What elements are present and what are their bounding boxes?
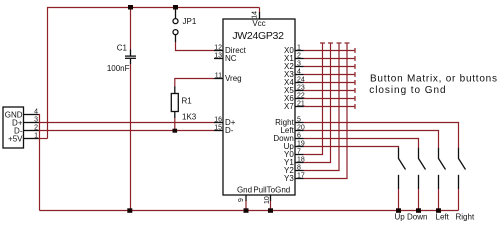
wire Left to switch S3 xyxy=(304,131,439,149)
switch S2 Down xyxy=(419,148,426,189)
svg-text:C1: C1 xyxy=(117,44,128,53)
junction top rail / C1 xyxy=(128,5,133,10)
wire Y0 column xyxy=(304,43,323,155)
pin 16 stub xyxy=(214,122,223,124)
svg-text:22: 22 xyxy=(297,93,305,100)
svg-text:24: 24 xyxy=(297,77,305,84)
wire C1 top xyxy=(130,8,132,50)
capacitor C1 xyxy=(125,50,136,65)
svg-text:4: 4 xyxy=(297,69,301,76)
svg-text:5: 5 xyxy=(297,117,301,124)
svg-text:8: 8 xyxy=(297,165,301,172)
connector pin 3 stub xyxy=(24,122,39,124)
switch S4 Right xyxy=(459,148,466,189)
node X3 end tick xyxy=(354,72,356,77)
svg-text:Button Matrix, or buttons: Button Matrix, or buttons xyxy=(370,74,498,85)
node Y3 top tick xyxy=(345,42,350,44)
svg-text:17: 17 xyxy=(297,173,305,180)
wire R1 bottom to D- xyxy=(174,118,176,131)
junction R1 / D- xyxy=(173,129,178,133)
svg-text:PullToGnd: PullToGnd xyxy=(253,186,290,195)
junction bottom rail / switch S2 xyxy=(416,208,421,213)
svg-text:Vcc: Vcc xyxy=(252,19,265,28)
svg-text:9: 9 xyxy=(238,198,245,202)
svg-text:R1: R1 xyxy=(182,97,193,106)
svg-text:JP1: JP1 xyxy=(183,17,197,26)
svg-text:23: 23 xyxy=(297,85,305,92)
node Y0 top tick xyxy=(320,42,325,44)
connector pin 1 stub xyxy=(24,138,39,140)
wire X5 row xyxy=(304,90,356,92)
svg-text:3: 3 xyxy=(297,61,301,68)
switch S1 Up xyxy=(399,148,406,189)
pin 13 stub xyxy=(214,58,223,60)
wire X7 row xyxy=(304,106,356,108)
svg-text:X7: X7 xyxy=(284,102,294,111)
wire JP1 to pin12 xyxy=(176,42,215,51)
wire Y3 column xyxy=(304,43,348,179)
svg-text:19: 19 xyxy=(297,141,305,148)
svg-text:JW24GP32: JW24GP32 xyxy=(232,30,284,42)
pin 11 stub xyxy=(214,78,223,80)
wire +5V top rail xyxy=(48,8,260,139)
node X7 end tick xyxy=(354,104,356,109)
wire Y2 column xyxy=(304,43,340,171)
junction bottom rail / switch S3 xyxy=(436,208,441,213)
node X0 end tick xyxy=(354,48,356,53)
wire Gnd pin9 xyxy=(245,201,247,211)
svg-text:D-: D- xyxy=(225,126,234,135)
svg-text:13: 13 xyxy=(214,53,222,60)
wire Vreg pin11 to R1 xyxy=(175,79,214,88)
node X5 end tick xyxy=(354,88,356,93)
junction bottom rail / switch S1 xyxy=(396,208,401,213)
wire Y1 column xyxy=(304,43,331,163)
svg-text:12: 12 xyxy=(214,45,222,52)
right pin stubs X0-X7 xyxy=(295,51,304,107)
node X1 end tick xyxy=(354,56,356,61)
wire Vcc pin14 xyxy=(259,8,261,13)
svg-text:Down: Down xyxy=(407,213,427,222)
junction bottom rail / C1 xyxy=(127,208,132,213)
wire GND bottom rail xyxy=(40,210,459,212)
wire X2 row xyxy=(304,66,356,68)
svg-text:2: 2 xyxy=(297,53,301,60)
pin Vcc 14 stub xyxy=(259,12,261,19)
wire D+ xyxy=(39,122,215,124)
wire PullToGnd pin10 xyxy=(270,201,272,211)
svg-text:11: 11 xyxy=(215,73,222,80)
svg-text:18: 18 xyxy=(297,157,305,164)
pin PullToGnd 10 stub xyxy=(270,195,272,201)
svg-text:Vreg: Vreg xyxy=(225,74,242,83)
node Y2 top tick xyxy=(337,42,342,44)
wire switch S3 bottom xyxy=(438,189,440,211)
svg-text:1K3: 1K3 xyxy=(182,113,197,122)
svg-text:1: 1 xyxy=(34,133,38,140)
svg-text:20: 20 xyxy=(297,125,305,132)
jumper JP1 xyxy=(173,10,178,43)
svg-text:15: 15 xyxy=(214,125,222,132)
svg-text:21: 21 xyxy=(297,101,305,108)
svg-text:1: 1 xyxy=(297,45,301,52)
pin 12 stub xyxy=(214,50,223,52)
svg-text:3: 3 xyxy=(34,117,38,124)
right pin stubs Right..Y3 xyxy=(295,123,304,179)
wire Down to switch S2 xyxy=(304,139,419,149)
node X2 end tick xyxy=(354,64,356,69)
wire X3 row xyxy=(304,74,356,76)
junction top rail / JP1 xyxy=(173,5,178,10)
pin Gnd 9 stub xyxy=(245,195,247,201)
wire Right to switch S4 xyxy=(304,123,459,149)
resistor R1 xyxy=(171,87,178,119)
svg-text:6: 6 xyxy=(297,133,301,140)
connector pin 4 stub xyxy=(24,114,39,116)
svg-text:NC: NC xyxy=(225,54,237,63)
svg-text:100nF: 100nF xyxy=(107,64,130,73)
wire D- xyxy=(39,130,215,132)
wire switch S2 bottom xyxy=(418,189,420,211)
svg-text:Left: Left xyxy=(436,213,450,222)
wire +5V pin1 to rail xyxy=(39,138,48,140)
svg-text:+5V: +5V xyxy=(8,135,23,144)
wire Up to switch S1 xyxy=(304,147,399,149)
node X6 end tick xyxy=(354,96,356,101)
svg-text:Right: Right xyxy=(456,213,475,222)
junction bottom rail / Gnd pin xyxy=(244,208,249,213)
svg-text:Gnd: Gnd xyxy=(237,186,252,195)
connector X1 box xyxy=(3,107,24,148)
svg-text:7: 7 xyxy=(297,149,301,156)
op IC U1 JW24GP32 box xyxy=(223,19,295,195)
wire X1 row xyxy=(304,58,356,60)
node Y1 top tick xyxy=(328,42,333,44)
svg-text:10: 10 xyxy=(264,196,271,204)
wire X6 row xyxy=(304,98,356,100)
wire switch S1 bottom xyxy=(398,189,400,211)
svg-text:14: 14 xyxy=(252,11,259,19)
svg-text:2: 2 xyxy=(34,125,38,132)
wire switch S4 bottom xyxy=(458,189,460,211)
svg-text:Up: Up xyxy=(395,213,406,222)
wire C1 bottom xyxy=(130,64,132,211)
svg-text:Y3: Y3 xyxy=(284,174,294,183)
wire X4 row xyxy=(304,82,356,84)
switch S3 Left xyxy=(439,148,446,189)
svg-text:16: 16 xyxy=(214,117,222,124)
svg-text:closing to Gnd: closing to Gnd xyxy=(369,85,446,96)
svg-text:4: 4 xyxy=(34,109,38,116)
junction bottom rail / PullToGnd pin xyxy=(268,208,273,213)
node X4 end tick xyxy=(354,80,356,85)
wire GND vertical xyxy=(39,115,40,211)
pin 15 stub xyxy=(214,130,223,132)
connector pin 2 stub xyxy=(24,130,39,132)
wire X0 row xyxy=(304,50,356,52)
